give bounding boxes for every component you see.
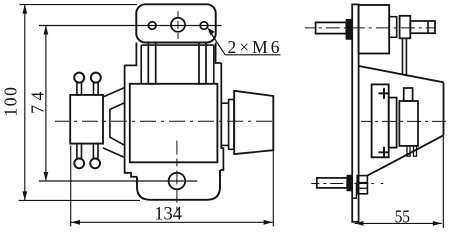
spring box leg right [414,146,417,156]
pusher washer [229,100,234,150]
wire extension line through base hole (dim 74 bottom) [39,180,198,182]
connector trapezoid outer bottom edge [103,148,124,158]
terminal ball top-right [91,73,101,83]
bracket arm bottom edge [367,135,443,175]
left side cover flange [125,65,138,176]
pusher cone [234,91,273,154]
connector trapezoid inner [110,103,125,145]
centerline vertical bottom [176,141,178,211]
right side cover flange [220,63,223,170]
dimension 134 right extension line [272,150,274,226]
svg-text:55: 55 [395,206,410,226]
bracket arm right edge [443,82,445,135]
core frame top line [141,44,214,46]
guide bolt right [199,43,206,84]
terminal stem bottom-left [77,144,82,159]
wire top extension line of dim 100 [20,4,138,6]
core frame right vertical [213,45,215,84]
center hole [171,18,185,32]
top stud right end cap [427,21,429,33]
connector trapezoid outer top edge [103,88,124,97]
terminal stem top-right [94,83,99,95]
svg-text:2×M6: 2×M6 [228,37,280,57]
hole M6 right [200,22,208,30]
hanger rod [403,38,407,76]
magnet block side [359,5,390,54]
terminal ball top-left [74,73,84,83]
terminal stem bottom-right [93,144,98,159]
coil body [130,84,218,163]
plate left edge extension below [124,43,136,66]
base plate [137,170,220,200]
spring box leg left [407,146,410,156]
pusher neck bottom line [221,144,228,146]
centerline horizontal axis left view [55,120,272,122]
spring box cap [404,88,413,101]
core frame left vertical [140,45,142,84]
wire bottom extension line of dim 100 [19,199,140,201]
spring box [399,101,418,146]
terminal ball bottom-right [90,159,100,169]
dimension 100 vertical line [22,5,27,201]
svg-text:74: 74 [27,92,47,114]
bottom nut [357,176,367,194]
mounting plate [352,4,358,221]
bottom stud [317,178,347,188]
top washer left [346,20,351,39]
top washer right [400,16,411,39]
block face rect [389,17,397,38]
dimension 134 left extension line [70,146,72,227]
guide bolt left [148,43,155,84]
armature top plate [136,4,215,42]
plate right edge extension below [216,43,222,64]
top stud left [316,22,347,33]
terminal stem top-left [77,83,82,95]
centerline vertical of center hole [177,11,179,39]
leader line of 2xM6 [207,28,280,55]
coil terminal block [70,95,103,144]
top stud right [410,21,435,33]
damper box with polarity marks [372,84,390,157]
svg-text:100: 100 [0,87,20,117]
centerline top stud axis [305,27,436,29]
dimension 134 line [71,220,273,225]
bottom washer [347,175,352,190]
centerline middle axis [361,120,450,122]
bracket arm top edge [359,66,444,82]
centerline bottom stud axis [311,183,383,185]
dimension 55 right extension line [442,135,444,228]
base mounting hole [169,173,186,190]
terminal ball bottom-left [74,159,84,169]
wire extension line through top holes (dim 74 top) [39,25,222,27]
dimension 55 line [355,221,442,226]
hole M6 left [148,22,156,30]
pusher neck top line [221,102,228,104]
middle column [389,98,397,148]
svg-text:134: 134 [154,204,182,224]
bottom bracket step [353,183,356,199]
dimension 74 vertical line [44,26,49,182]
